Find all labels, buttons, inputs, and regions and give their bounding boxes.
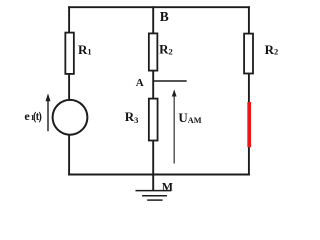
svg-text:UAM: UAM xyxy=(178,110,201,125)
svg-text:(t): (t) xyxy=(33,109,41,123)
svg-text:R2: R2 xyxy=(265,42,279,57)
svg-text:R2: R2 xyxy=(159,42,173,57)
svg-text:R1: R1 xyxy=(78,42,92,57)
svg-text:M: M xyxy=(162,179,173,193)
svg-text:e: e xyxy=(24,109,30,123)
svg-text:R3: R3 xyxy=(125,109,139,125)
svg-text:A: A xyxy=(136,77,144,89)
svg-text:B: B xyxy=(160,9,169,24)
